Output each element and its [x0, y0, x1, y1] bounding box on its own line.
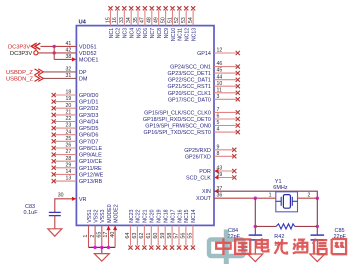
wire C85 to ground	[316, 240, 318, 254]
svg-text:GP2/D2: GP2/D2	[79, 106, 99, 112]
svg-text:VSS1: VSS1	[87, 209, 93, 222]
pin NC1 (pin 15) top wire + X + number + label	[105, 6, 115, 38]
pin 43 POR (input arrow)	[199, 166, 236, 175]
svg-text:GP21/SCC_RST1: GP21/SCC_RST1	[167, 84, 210, 90]
svg-text:26: 26	[66, 143, 72, 149]
port USBDN_Z	[6, 75, 43, 82]
wire DC3P3V to pin 41 VDD51	[41, 45, 77, 47]
svg-text:VDD51: VDD51	[79, 44, 97, 50]
IC U4 body	[76, 19, 214, 225]
capacitor C84 22pF	[228, 228, 263, 240]
svg-text:GP8/CLE: GP8/CLE	[79, 146, 103, 152]
svg-text:NC3: NC3	[123, 28, 129, 38]
svg-text:2: 2	[308, 192, 311, 198]
svg-text:NC9: NC9	[164, 28, 170, 38]
ground symbol (C84)	[248, 254, 263, 262]
svg-text:39: 39	[217, 172, 223, 178]
junction node DC3P3V/VDD51	[53, 45, 56, 48]
svg-text:GP3/D3: GP3/D3	[79, 113, 99, 119]
svg-text:44: 44	[217, 74, 223, 80]
ground symbol (C83)	[48, 229, 62, 236]
svg-text:6MHz: 6MHz	[273, 185, 288, 191]
pin NC4 (pin 34) top wire + X + number + label	[126, 6, 136, 38]
svg-text:41: 41	[66, 41, 72, 47]
svg-text:NC13: NC13	[191, 28, 197, 41]
pin 26 GP8/CLE (left stub with X)	[52, 143, 103, 152]
svg-text:28: 28	[66, 156, 72, 162]
svg-text:17: 17	[103, 232, 109, 238]
pin NC12 (pin 53) top wire + X + number + label	[181, 6, 191, 41]
svg-text:62: 62	[139, 233, 145, 239]
svg-text:GP20/SCC_CLK1: GP20/SCC_CLK1	[168, 91, 211, 97]
svg-text:52: 52	[174, 17, 180, 23]
pin 8 GP26/TXD	[185, 151, 237, 160]
svg-text:MODE2: MODE2	[113, 204, 119, 223]
svg-text:DC3P3V: DC3P3V	[10, 51, 32, 57]
svg-text:0.1uF: 0.1uF	[24, 210, 39, 216]
pin 57 NC16 (bottom stub with X)	[174, 209, 184, 249]
svg-text:GP6/D6: GP6/D6	[79, 133, 99, 139]
pin 4 GP16/SPI_TXD/SCC_RST0	[143, 127, 239, 136]
svg-text:47: 47	[140, 17, 146, 23]
svg-text:GP17/SCC_DAT0: GP17/SCC_DAT0	[168, 97, 211, 103]
wire left branch down to C84	[254, 198, 256, 235]
svg-text:NC11: NC11	[178, 28, 184, 41]
pin 14 GP12/WE (left stub with X)	[52, 169, 104, 178]
pin 58 NC17 (bottom stub with X)	[167, 209, 177, 249]
pin 41 VDD51	[66, 41, 97, 51]
svg-text:49: 49	[154, 17, 160, 23]
svg-text:USBDP_Z: USBDP_Z	[6, 70, 33, 76]
svg-text:GP10/CE: GP10/CE	[79, 159, 103, 165]
pin NC9 (pin 50) top wire + X + number + label	[160, 6, 170, 38]
junction node XOUT/C84	[254, 197, 257, 200]
svg-text:GP26/TXD: GP26/TXD	[185, 154, 211, 160]
svg-text:27: 27	[66, 149, 72, 155]
svg-text:12: 12	[217, 48, 223, 54]
pin 21 GP3/D3 (left stub with X)	[52, 110, 99, 119]
svg-text:GP15/SPI_CLK/SCC_CLK0: GP15/SPI_CLK/SCC_CLK0	[144, 110, 211, 116]
svg-text:NC2: NC2	[116, 28, 122, 38]
svg-text:NC17: NC17	[170, 209, 176, 222]
svg-text:MODE0: MODE0	[107, 204, 113, 223]
crystal Y1 6MHz	[273, 179, 297, 212]
svg-text:NC18: NC18	[164, 209, 170, 222]
svg-text:4: 4	[217, 127, 220, 133]
pin 25 GP7/D7 (left stub with X)	[52, 136, 99, 145]
svg-text:GP22/SCC_DAT1: GP22/SCC_DAT1	[168, 78, 211, 84]
svg-text:NC15: NC15	[184, 209, 190, 222]
pin 24 GP6/D6 (left stub with X)	[52, 129, 99, 138]
svg-text:15: 15	[105, 17, 111, 23]
svg-text:XOUT: XOUT	[196, 196, 211, 202]
pin 45 GP23/SCC_DET1	[167, 68, 239, 77]
svg-text:13: 13	[66, 176, 72, 182]
pin 27 GP9/ALE (left stub with X)	[52, 149, 103, 158]
wire vertical DC3P3V distribution	[53, 46, 55, 59]
pin 46 GP24/SCC_ON1	[170, 61, 240, 70]
svg-text:35: 35	[133, 17, 139, 23]
svg-text:GP11/RE: GP11/RE	[79, 166, 102, 172]
svg-text:63: 63	[132, 233, 138, 239]
svg-text:57: 57	[174, 233, 180, 239]
svg-text:19: 19	[66, 96, 72, 102]
svg-text:51: 51	[167, 17, 173, 23]
svg-text:29: 29	[66, 162, 72, 168]
pin 23 GP5/D5 (left stub with X)	[52, 123, 99, 132]
pin NC2 (pin 16) top wire + X + number + label	[112, 6, 122, 38]
svg-text:NC6: NC6	[143, 28, 149, 38]
svg-text:1: 1	[83, 235, 89, 238]
svg-text:42: 42	[66, 47, 72, 53]
svg-text:65: 65	[97, 232, 103, 238]
wire DC3P3V to pin 42 VDD52	[38, 52, 76, 54]
pin 44 GP22/SCC_DAT1	[168, 74, 240, 83]
svg-text:NC5: NC5	[136, 28, 142, 38]
watermark text: Chinese characters (drawn strokes)	[216, 238, 346, 255]
pin 11 GP20/SCC_CLK1	[168, 87, 240, 96]
svg-text:64: 64	[125, 233, 131, 239]
svg-text:NC14: NC14	[191, 209, 197, 222]
pin 3 GP17/SCC_DAT0	[168, 94, 240, 103]
svg-text:NC8: NC8	[157, 28, 163, 38]
svg-text:31: 31	[66, 73, 72, 79]
svg-text:NC22: NC22	[136, 209, 142, 222]
pin 32 DP	[66, 66, 87, 76]
svg-text:MODE1: MODE1	[79, 57, 99, 63]
pin 13 GP13/RB (left stub with X)	[52, 176, 103, 185]
wire R42 right lead	[295, 225, 318, 227]
svg-text:NC19: NC19	[157, 209, 163, 222]
svg-text:USBDN_Z: USBDN_Z	[6, 77, 34, 83]
ground symbol (VSS rail)	[94, 254, 109, 262]
svg-text:60: 60	[153, 233, 159, 239]
svg-text:GP1/D1: GP1/D1	[79, 100, 99, 106]
svg-text:58: 58	[167, 233, 173, 239]
pin 17 MODE0 (bottom)	[103, 204, 113, 247]
svg-text:1: 1	[269, 193, 272, 199]
pin 29 GP11/RE (left stub with X)	[52, 162, 102, 171]
svg-text:NC21: NC21	[143, 209, 149, 222]
pin 7 GP15/SPI_CLK/SCC_CLK0	[144, 107, 240, 116]
junction node R42 left	[254, 225, 257, 228]
pin 2 VSS2 (bottom)	[90, 209, 100, 247]
capacitor C83 0.1uF	[24, 204, 61, 216]
pin 39 SCD_CLK (input arrow)	[186, 172, 236, 181]
pin 19 GP1/D1 (left stub with X)	[52, 96, 99, 105]
svg-text:NC7: NC7	[150, 28, 156, 38]
pin NC6 (pin 47) top wire + X + number + label	[140, 6, 150, 38]
svg-text:GP7/D7: GP7/D7	[79, 139, 99, 145]
pin NC8 (pin 49) top wire + X + number + label	[154, 6, 164, 38]
svg-text:18: 18	[66, 90, 72, 96]
svg-text:38: 38	[66, 54, 72, 60]
pin 9 GP25/RXD	[184, 144, 236, 153]
pin NC5 (pin 35) top wire + X + number + label	[133, 6, 143, 38]
svg-text:NC1: NC1	[109, 28, 115, 38]
svg-text:7: 7	[217, 107, 220, 113]
wire C84 to ground	[254, 240, 256, 254]
pin 36 XOUT	[196, 193, 222, 202]
svg-text:24: 24	[66, 129, 72, 135]
svg-text:VDD52: VDD52	[79, 51, 97, 57]
svg-text:25: 25	[66, 136, 72, 142]
pin 37 XIN (input arrow)	[202, 186, 222, 195]
svg-text:32: 32	[66, 66, 72, 72]
crystal pin 1 number	[269, 193, 272, 199]
pin NC10 (pin 51) top wire + X + number + label	[167, 6, 177, 41]
pin 12 GP14 (right stub with X)	[197, 48, 240, 57]
svg-text:46: 46	[217, 61, 223, 67]
svg-text:55: 55	[188, 233, 194, 239]
pin NC13 (pin 54) top wire + X + number + label	[188, 6, 198, 41]
pin 64 NC23 (bottom stub with X)	[125, 209, 135, 249]
svg-text:59: 59	[160, 233, 166, 239]
svg-text:GP14: GP14	[197, 51, 211, 57]
svg-text:GP25/RXD: GP25/RXD	[184, 148, 211, 154]
svg-text:NC4: NC4	[130, 28, 136, 38]
wire XOUT to crystal	[214, 197, 276, 199]
svg-text:3: 3	[217, 94, 220, 100]
wire USBDN_Z to pin 31 DM	[43, 77, 76, 79]
svg-text:16: 16	[112, 17, 118, 23]
port USBDP_Z	[6, 69, 43, 76]
wire VR net (L shape) with input arrow	[55, 197, 77, 213]
pin 10 GP21/SCC_RST1	[167, 81, 239, 90]
wire rail to ground	[101, 247, 103, 253]
svg-text:SCD_CLK: SCD_CLK	[186, 176, 211, 182]
svg-text:22: 22	[66, 116, 72, 122]
svg-text:GP18/SPI_RXD/SCC_DET0: GP18/SPI_RXD/SCC_DET0	[143, 117, 211, 123]
svg-text:30: 30	[58, 192, 64, 198]
svg-text:14: 14	[66, 169, 72, 175]
pin 60 NC19 (bottom stub with X)	[153, 209, 163, 249]
svg-text:GP12/WE: GP12/WE	[79, 172, 104, 178]
wire crystal pin2 stub	[298, 197, 318, 199]
svg-text:GP0/D0: GP0/D0	[79, 93, 99, 99]
pin 62 NC21 (bottom stub with X)	[139, 209, 149, 249]
svg-text:GP9/ALE: GP9/ALE	[79, 153, 102, 159]
pin 65 VSS3 (bottom)	[97, 209, 107, 247]
resistor R42 1M	[274, 224, 295, 248]
wire ground rail under VSS pins	[89, 246, 116, 248]
svg-text:61: 61	[146, 233, 152, 239]
pin 1 VSS1 (bottom)	[83, 209, 93, 247]
junction node XIN/C85	[316, 197, 319, 200]
svg-text:NC23: NC23	[129, 209, 135, 222]
wire to pin 38 MODE1 with input arrow	[54, 57, 76, 61]
svg-text:45: 45	[217, 68, 223, 74]
svg-text:NC16: NC16	[177, 209, 183, 222]
svg-text:54: 54	[188, 17, 194, 23]
svg-text:33: 33	[119, 17, 125, 23]
svg-text:VR: VR	[79, 197, 87, 203]
junction node DC3P3V/VDD52	[53, 51, 56, 54]
svg-text:21: 21	[66, 110, 72, 116]
pin NC11 (pin 52) top wire + X + number + label	[174, 6, 184, 40]
pin 59 NC18 (bottom stub with X)	[160, 209, 170, 249]
svg-text:DM: DM	[79, 76, 88, 82]
pin 20 GP2/D2 (left stub with X)	[52, 103, 99, 112]
ground symbol (C85)	[310, 254, 325, 262]
svg-text:NC10: NC10	[171, 28, 177, 41]
watermark logo (teal)	[209, 230, 244, 264]
wire C83 to ground	[54, 216, 56, 229]
wire R42 left lead	[255, 225, 276, 227]
svg-text:DC3P3V: DC3P3V	[8, 45, 30, 51]
wire XIN to crystal (dark)	[214, 191, 317, 198]
svg-text:GP5/D5: GP5/D5	[79, 126, 99, 132]
svg-text:20: 20	[66, 103, 72, 109]
svg-text:53: 53	[181, 17, 187, 23]
svg-text:2: 2	[90, 235, 96, 238]
pin 38 MODE1	[66, 54, 99, 64]
svg-text:GP24/SCC_ON1: GP24/SCC_ON1	[170, 65, 211, 71]
svg-text:23: 23	[66, 123, 72, 129]
svg-text:40: 40	[110, 232, 116, 238]
pin 22 GP4/D4 (left stub with X)	[52, 116, 99, 125]
port DC3P3V (net label, chevron)	[8, 43, 40, 50]
svg-text:VSS2: VSS2	[93, 209, 99, 222]
svg-text:10: 10	[217, 81, 223, 87]
svg-text:U4: U4	[79, 19, 87, 25]
pin 5 GP19/SPI_FRM/SCC_ON0	[145, 120, 240, 129]
svg-text:GP13/RB: GP13/RB	[79, 179, 103, 185]
svg-text:50: 50	[160, 17, 166, 23]
svg-text:VSS3: VSS3	[100, 209, 106, 222]
pin NC3 (pin 33) top wire + X + number + label	[119, 6, 129, 38]
capacitor C85 22pF	[311, 228, 347, 240]
wire right branch down to C85	[316, 198, 318, 235]
svg-text:GP23/SCC_DET1: GP23/SCC_DET1	[167, 71, 210, 77]
svg-text:11: 11	[217, 87, 222, 93]
junction node R42 right	[316, 225, 319, 228]
pin 30 VR	[58, 192, 87, 203]
pin 61 NC20 (bottom stub with X)	[146, 209, 156, 249]
svg-text:9: 9	[217, 144, 220, 150]
svg-text:6: 6	[217, 114, 220, 120]
pin NC7 (pin 48) top wire + X + number + label	[147, 6, 157, 38]
svg-text:GP19/SPI_FRM/SCC_ON0: GP19/SPI_FRM/SCC_ON0	[145, 124, 211, 130]
pin 28 GP10/CE (left stub with X)	[52, 156, 103, 165]
junction dots on ground rail	[93, 246, 110, 249]
svg-text:8: 8	[217, 151, 220, 157]
svg-text:34: 34	[126, 17, 132, 23]
pin 56 NC15 (bottom stub with X)	[181, 209, 191, 249]
pin 40 MODE2 (bottom)	[110, 204, 120, 247]
svg-text:GP16/SPI_TXD/SCC_RST0: GP16/SPI_TXD/SCC_RST0	[143, 130, 210, 136]
svg-text:NC12: NC12	[185, 28, 191, 41]
pin 55 NC14 (bottom stub with X)	[188, 209, 198, 249]
svg-text:POR: POR	[199, 169, 211, 175]
pin 31 DM	[66, 73, 88, 83]
pin 6 GP18/SPI_RXD/SCC_DET0	[143, 114, 240, 123]
port DC3P3V (second, with no-ERC circle)	[10, 51, 38, 57]
svg-text:GP4/D4: GP4/D4	[79, 120, 99, 126]
crystal pin 2 number	[308, 192, 311, 198]
wire USBDP_Z to pin 32 DP	[43, 71, 76, 73]
svg-text:XIN: XIN	[202, 189, 211, 195]
svg-text:NC20: NC20	[150, 209, 156, 222]
svg-text:DP: DP	[79, 70, 87, 76]
pin 42 VDD52	[66, 47, 97, 57]
pin 18 GP0/D0 (left stub with X)	[52, 90, 99, 99]
svg-text:48: 48	[147, 17, 153, 23]
svg-text:56: 56	[181, 233, 187, 239]
pin 63 NC22 (bottom stub with X)	[132, 209, 142, 249]
svg-text:5: 5	[217, 120, 220, 126]
svg-text:43: 43	[217, 166, 223, 172]
